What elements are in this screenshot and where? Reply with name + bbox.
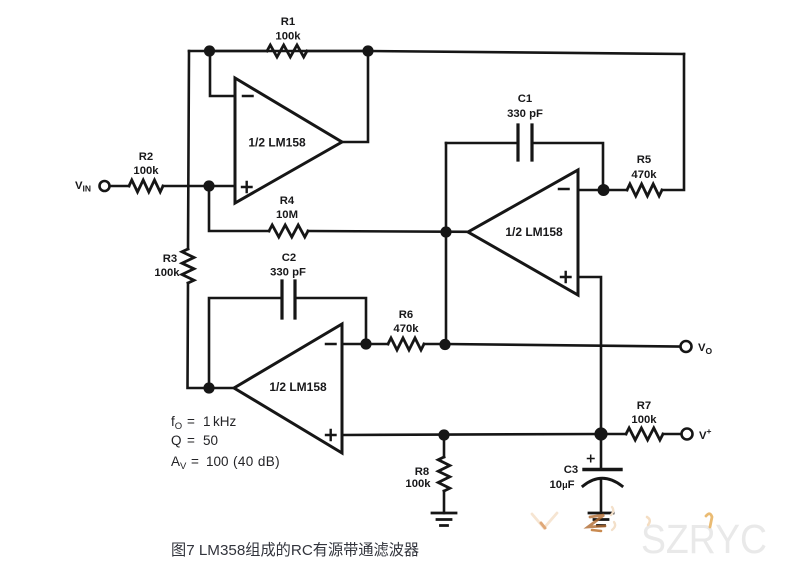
junction node U2 inverting / R5 xyxy=(598,184,610,196)
U2 plus pin symbol xyxy=(561,272,571,282)
wire R8 bottom lead to ground xyxy=(443,491,446,513)
orange scribble curls right of C3 xyxy=(611,507,613,515)
svg-text:SZRYC: SZRYC xyxy=(641,516,767,562)
svg-text:Q=50: Q=50 xyxy=(171,433,218,448)
wire VIN terminal to R2 xyxy=(110,185,129,188)
wire U3 inverting input to C2/R6 node xyxy=(342,343,388,346)
svg-text:1/2 LM158: 1/2 LM158 xyxy=(248,136,306,150)
terminal VO circle xyxy=(681,341,692,352)
resistor R5 xyxy=(627,184,662,196)
svg-text:R2: R2 xyxy=(139,151,153,163)
terminal VIN circle xyxy=(100,181,110,191)
capacitor C3 polarized xyxy=(584,468,621,471)
orange scribble small curl xyxy=(647,517,650,525)
junction node V+ / C3 xyxy=(594,427,607,440)
svg-text:VO: VO xyxy=(698,342,713,356)
resistor R7 xyxy=(626,428,663,440)
wire vertical through node B from C1 loop down to R6 output node xyxy=(445,143,448,344)
capacitor C1 xyxy=(518,125,532,160)
wire C2 feedback loop xyxy=(209,298,366,388)
svg-text:1/2 LM158: 1/2 LM158 xyxy=(269,380,327,394)
junction node C2/R6 at U3 inverting input xyxy=(360,338,371,349)
op-amp U2 triangle (mirrored) xyxy=(468,170,578,295)
U1 minus pin symbol xyxy=(243,95,253,98)
svg-text:100k: 100k xyxy=(631,414,657,426)
wire U2 non-inverting input down to V+ rail xyxy=(578,277,601,434)
wire node A down and right to R4 xyxy=(209,186,269,231)
wire U3 output to bottom-left node xyxy=(209,387,234,390)
wire R8 top lead xyxy=(443,435,446,457)
resistor R2 xyxy=(129,180,163,192)
wire top rail from left corner to right corner xyxy=(189,51,684,54)
svg-text:470k: 470k xyxy=(393,323,419,335)
U2 minus pin symbol xyxy=(559,188,569,191)
svg-text:R5: R5 xyxy=(637,154,651,166)
U3 plus pin symbol xyxy=(326,430,336,440)
junction node top-left on rail xyxy=(204,45,215,56)
op-amp U3 triangle (mirrored) xyxy=(234,324,342,453)
op-amp U1 triangle xyxy=(235,78,342,203)
junction node U1 output on rail xyxy=(362,45,373,56)
U1 plus pin symbol xyxy=(242,182,252,192)
orange scribble V mark near C3 xyxy=(532,513,557,528)
wire U2 inverting input to R5 node xyxy=(578,189,627,192)
resistor R1 xyxy=(267,45,307,57)
ground symbol for C3 xyxy=(589,513,613,526)
junction node bottom-left at U3 output xyxy=(203,382,214,393)
wire U1 output up to top rail xyxy=(342,51,368,142)
wire V+ node to R7 xyxy=(601,433,626,436)
junction node A at U1 plus input xyxy=(203,180,214,191)
wire R2 to U1 non-inverting input xyxy=(163,185,235,188)
svg-text:470k: 470k xyxy=(631,169,657,181)
svg-text:VIN: VIN xyxy=(75,180,91,194)
svg-text:C3: C3 xyxy=(564,464,578,476)
svg-text:330 pF: 330 pF xyxy=(507,108,543,120)
svg-text:R4: R4 xyxy=(280,195,295,207)
terminal V+ circle xyxy=(682,429,693,440)
capacitor C2 xyxy=(282,281,295,318)
svg-text:图7 LM358组成的RC有源带通滤波器: 图7 LM358组成的RC有源带通滤波器 xyxy=(171,542,419,559)
svg-text:100k: 100k xyxy=(133,165,159,177)
wire C3 top lead xyxy=(600,434,603,468)
orange scribble n mark xyxy=(706,514,712,527)
wire U3 non-inverting input to V+ rail xyxy=(342,434,601,435)
svg-text:100k: 100k xyxy=(275,31,301,43)
svg-text:100k: 100k xyxy=(405,478,431,490)
resistor R4 xyxy=(269,225,308,237)
svg-text:10M: 10M xyxy=(276,209,298,221)
svg-text:AV=100(40 dB): AV=100(40 dB) xyxy=(171,454,280,472)
wire C3 bottom lead to ground xyxy=(600,479,603,514)
wire R7 to V+ terminal xyxy=(663,433,681,436)
svg-text:1/2 LM158: 1/2 LM158 xyxy=(505,225,563,239)
orange scribble Z over C3 ground xyxy=(588,515,605,527)
svg-text:V+: V+ xyxy=(699,426,712,442)
svg-text:R7: R7 xyxy=(637,400,651,412)
wire R5 to right vertical rail xyxy=(662,54,684,190)
svg-text:C1: C1 xyxy=(518,93,532,105)
resistor R8 xyxy=(438,457,450,491)
wire R4 to node B at U2 input xyxy=(308,230,468,233)
svg-text:C2: C2 xyxy=(282,252,296,264)
svg-text:fO=1kHz: fO=1kHz xyxy=(171,414,236,432)
svg-text:R6: R6 xyxy=(399,309,413,321)
svg-text:10μF: 10μF xyxy=(550,479,575,491)
junction node R6 / vertical from node B xyxy=(439,339,450,350)
C3 plus polarity mark xyxy=(588,455,595,461)
junction node B at U2 input xyxy=(440,226,451,237)
resistor R6 xyxy=(388,338,424,350)
svg-text:R1: R1 xyxy=(281,16,295,28)
junction node R8 at U3 plus input xyxy=(438,429,449,440)
resistor R3 xyxy=(182,249,194,283)
U3 minus pin symbol xyxy=(326,343,336,346)
wire R6 node to VO terminal xyxy=(424,344,680,347)
svg-text:100k: 100k xyxy=(154,267,180,279)
wire C1 feedback loop top xyxy=(446,143,603,190)
wire left vertical from top rail down to bottom-left node xyxy=(188,51,210,388)
svg-text:330 pF: 330 pF xyxy=(270,267,306,279)
svg-text:R3: R3 xyxy=(163,253,177,265)
wire R1 leads xyxy=(209,50,368,53)
svg-text:R8: R8 xyxy=(415,466,429,478)
wire from node under top rail down to U1 inverting input xyxy=(210,51,235,96)
ground symbol for R8 xyxy=(432,513,456,526)
